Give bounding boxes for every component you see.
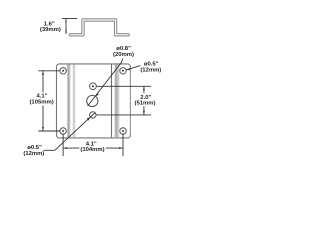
leader line from (20mm) label through large hole [88,59,123,106]
front view: left bend fold shading band 2 [72,65,75,138]
front view: plate outline [57,64,131,138]
svg-text:(104mm): (104mm) [80,147,104,153]
svg-text:(20mm): (20mm) [113,52,134,58]
svg-text:(105mm): (105mm) [29,100,53,106]
left dimension 4.1" (105mm): extension lines [38,70,60,72]
leader from bottom-left ø0.5 label to lower small hole [44,113,96,151]
lower small hole ø0.5 [90,112,96,118]
top view: hat bracket profile (sheet cross-section) [70,20,128,35]
svg-text:(51mm): (51mm) [135,101,156,107]
center large hole ø0.8" [87,95,98,106]
corner hole bottom-left with center dot [60,128,66,134]
corner hole top-right with center dot [120,68,126,74]
bottom dimension line with arrowheads (broken by text) [63,147,79,149]
top view: vertical dimension line 1.6" with arrowheads [65,19,67,34]
plate right edge (lighter) [129,68,131,134]
corner hole top-left with center dot [60,68,66,74]
bottom dimension 4.1" (104mm): extension lines from bottom holes [62,134,64,157]
front view: right bend fold shading band [114,65,119,138]
right dimension 2.0" (51mm): extension lines from small holes [96,85,151,87]
upper small hole ø0.5 with center dot [90,83,97,90]
svg-text:(39mm): (39mm) [40,27,61,33]
arrowhead on large hole upper-right edge [96,93,99,97]
left dimension line with arrowheads (broken by text) [42,71,44,92]
svg-text:(12mm): (12mm) [23,151,44,157]
front view: right bend fold edge line [111,64,113,137]
front view: left bend fold shading band 1 [67,65,71,138]
leader from top-right corner hole to ø0.5 label [126,66,140,70]
svg-text:(12mm): (12mm) [140,67,161,73]
right dimension line with arrowheads (broken by text) [143,86,145,93]
corner hole bottom-right with center dot [120,128,126,134]
top view: extension line for 1.6" height [62,18,77,20]
